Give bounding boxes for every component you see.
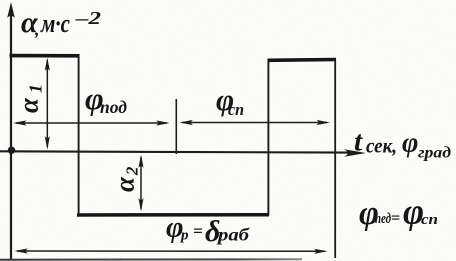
label: phi_p = delta_rab	[166, 211, 250, 249]
y-axis	[7, 2, 15, 259]
bottom scan-edge artifact	[0, 0, 1, 1]
left plateau (a1 level)	[10, 54, 80, 58]
lower plateau (a2 level)	[77, 213, 269, 217]
phi divider tick	[175, 99, 177, 154]
label: phi_pod	[85, 80, 127, 117]
a2 dimension line	[138, 155, 143, 212]
phi_sp dimension line	[179, 120, 330, 125]
label: phi_ped = phi_sp	[359, 192, 438, 233]
svg-text:–2: –2	[75, 8, 101, 28]
svg-text:t: t	[354, 126, 363, 158]
rising edge wire	[267, 59, 269, 216]
svg-text:под: под	[100, 97, 127, 117]
svg-text:=: =	[391, 210, 400, 227]
svg-text:м·с: м·с	[40, 9, 70, 38]
right plateau	[268, 58, 337, 62]
x-axis	[0, 149, 366, 157]
svg-text:пед: пед	[375, 211, 391, 227]
bottom dimension line (phi_p)	[14, 248, 327, 254]
label: t sec, phi grad (x-axis)	[354, 126, 451, 162]
origin dot	[8, 147, 15, 154]
svg-text:сек,: сек,	[366, 134, 397, 158]
svg-text:φ: φ	[402, 128, 418, 159]
phi_pod dimension line	[13, 120, 170, 125]
svg-text:сп: сп	[421, 212, 438, 228]
svg-text:раб: раб	[216, 225, 250, 245]
a1 dimension line	[45, 58, 50, 150]
right extension line	[334, 60, 336, 258]
falling edge wire	[78, 55, 80, 215]
svg-text:,: ,	[34, 19, 40, 39]
svg-text:р: р	[179, 228, 189, 244]
label: phi_sp	[216, 82, 244, 119]
svg-text:сп: сп	[228, 100, 244, 119]
svg-text:град: град	[418, 145, 451, 162]
svg-text:=: =	[193, 222, 203, 241]
label: a, m*s^-2 (y-axis)	[21, 6, 101, 39]
